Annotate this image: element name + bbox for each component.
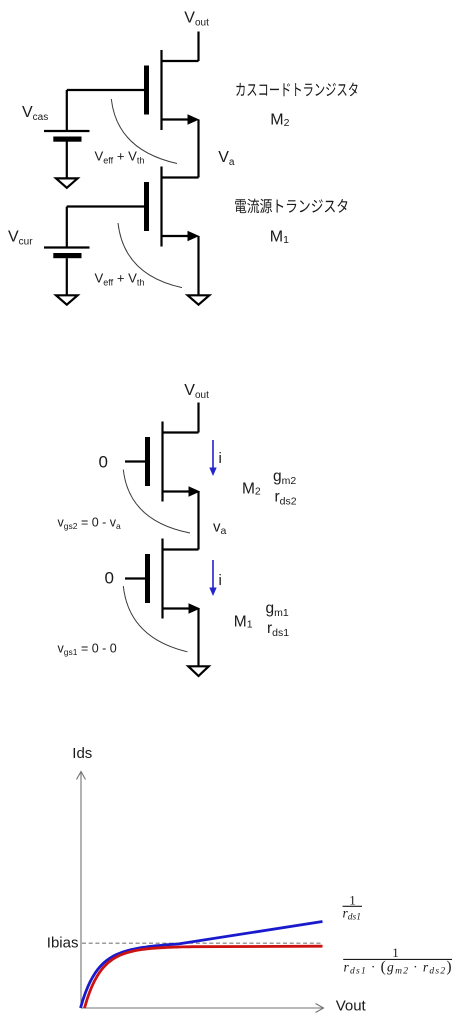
- wire M2 source to M1 drain: [197, 120, 199, 178]
- label 電流源トランジスタ: [235, 199, 347, 214]
- wire M2 gate lead (middle): [125, 460, 145, 462]
- wire vout to M2 drain (middle): [197, 403, 199, 433]
- annotation arc Veff+Vth (M1): [118, 223, 182, 288]
- transistor M2 (top): [144, 50, 199, 130]
- ground (middle circuit): [188, 666, 208, 676]
- wire M2 source to M1 drain (middle): [197, 492, 199, 550]
- current arrow i (upper, blue): [209, 440, 216, 476]
- svg-text:0: 0: [99, 453, 108, 472]
- label カスコードトランジスタ: [236, 83, 357, 97]
- transistor M1 (top): [144, 167, 199, 247]
- ground (Vcas battery): [56, 178, 78, 187]
- math label 1/rds1: [343, 892, 363, 922]
- wire M1 source to ground (middle): [197, 609, 199, 666]
- wire M1 gate to Vcur: [67, 205, 144, 207]
- svg-text:1: 1: [349, 892, 356, 907]
- svg-text:Vout: Vout: [336, 998, 367, 1015]
- wire M1 gate lead (middle): [125, 577, 145, 579]
- math label 1/(rds1 (gm2 rds2)): [343, 945, 452, 976]
- x axis Vout: [81, 1004, 324, 1013]
- svg-text:1: 1: [392, 945, 399, 960]
- wire Vout to M2 drain: [197, 32, 199, 62]
- annotation arc vgs1 (middle M1): [123, 586, 187, 652]
- ground (M1 source): [188, 295, 210, 304]
- svg-text:i: i: [219, 450, 222, 467]
- svg-text:Ibias: Ibias: [47, 934, 79, 951]
- current arrow i (lower, blue): [209, 560, 216, 596]
- ground (Vcur battery): [56, 295, 78, 304]
- svg-text:0: 0: [105, 569, 114, 588]
- svg-text:Ids: Ids: [72, 745, 92, 762]
- curve blue 1/rds1: [81, 922, 323, 1009]
- transistor M1 (middle): [145, 539, 200, 619]
- annotation arc vgs2 (middle M2): [123, 470, 190, 533]
- y axis Ids: [77, 772, 86, 1009]
- annotation arc Veff+Vth (M2): [111, 99, 177, 164]
- battery Vcas: [44, 90, 90, 178]
- battery Vcur: [44, 207, 90, 295]
- dashed line Ibias level: [82, 942, 321, 944]
- curve red cascode: [85, 946, 323, 1008]
- wire M1 source to ground: [197, 236, 199, 295]
- svg-text:i: i: [219, 572, 222, 589]
- transistor M2 (middle): [145, 422, 200, 502]
- wire M2 gate to Vcas: [67, 89, 144, 91]
